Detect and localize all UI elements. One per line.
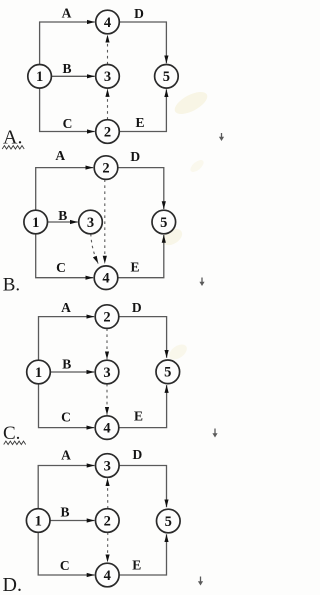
svg-text:D: D [133,447,143,462]
svg-text:B: B [62,61,71,76]
svg-text:A: A [61,447,71,462]
svg-text:5: 5 [165,514,172,530]
svg-text:B.: B. [3,274,20,295]
svg-text:B: B [58,208,67,223]
svg-text:C: C [56,260,66,275]
svg-text:3: 3 [104,69,111,85]
svg-text:2: 2 [104,124,111,140]
svg-text:C: C [63,116,73,131]
svg-text:D.: D. [3,574,22,595]
svg-text:D: D [132,300,142,315]
svg-text:D: D [134,6,144,21]
svg-text:A: A [62,5,72,20]
svg-text:C: C [60,558,70,573]
svg-text:2: 2 [104,513,111,529]
svg-text:5: 5 [164,365,171,381]
svg-text:1: 1 [32,215,39,231]
svg-text:A.: A. [3,126,22,148]
svg-text:1: 1 [35,513,42,529]
svg-text:3: 3 [87,215,94,231]
svg-text:E: E [135,115,144,130]
svg-text:3: 3 [104,458,111,474]
svg-text:4: 4 [103,421,110,437]
svg-text:1: 1 [36,69,43,85]
svg-text:E: E [132,557,141,572]
svg-text:3: 3 [103,365,110,381]
svg-text:5: 5 [160,215,167,231]
svg-text:A: A [55,148,65,163]
svg-text:C.: C. [3,423,20,444]
svg-text:E: E [130,259,139,274]
svg-text:D: D [130,149,140,164]
svg-text:B: B [60,504,69,519]
svg-text:2: 2 [102,161,109,177]
svg-text:E: E [134,409,143,424]
svg-text:5: 5 [163,69,170,85]
svg-text:C: C [61,409,71,424]
svg-text:B: B [62,356,71,371]
svg-text:A: A [61,300,71,315]
svg-text:2: 2 [103,310,110,326]
svg-text:4: 4 [104,15,111,31]
svg-text:1: 1 [35,365,42,381]
svg-text:4: 4 [104,568,111,584]
svg-text:4: 4 [102,271,109,287]
